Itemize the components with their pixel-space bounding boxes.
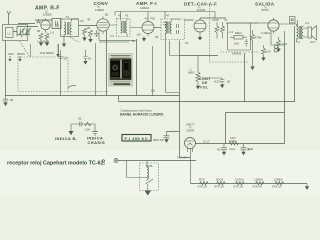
legend capacitor — [80, 122, 82, 127]
AC plug — [114, 159, 118, 163]
capacitor C9 in box — [59, 50, 63, 96]
svg-text:INDICA B-: INDICA B- — [55, 136, 78, 141]
electrolytic dots — [274, 45, 278, 49]
svg-text:F-I 455 KC.: F-I 455 KC. — [125, 136, 150, 141]
main B- bus — [6, 95, 180, 97]
svg-text:DANIEL HORACIO LUCERO: DANIEL HORACIO LUCERO — [120, 112, 164, 116]
svg-text:10K: 10K — [85, 128, 90, 132]
svg-text:1.0 600Ω: 1.0 600Ω — [37, 39, 50, 43]
capacitor C11 — [220, 78, 224, 85]
wire det top right — [185, 18, 227, 20]
tube V3 AMP F-I — [142, 22, 154, 34]
gang link dashed — [20, 41, 30, 56]
svg-text:470K: 470K — [255, 36, 262, 40]
svg-text:05: 05 — [78, 117, 82, 121]
pilot arrows — [57, 44, 59, 54]
wire conv bottom — [99, 31, 136, 42]
photo caption dark — [114, 83, 131, 85]
ground arrow coil — [62, 44, 66, 48]
svg-text:1.0: 1.0 — [50, 31, 55, 35]
heater resistor 2 — [217, 182, 226, 185]
resistor R4 — [45, 33, 49, 39]
svg-text:02: 02 — [185, 41, 189, 45]
svg-text:T1: T1 — [66, 15, 70, 19]
svg-text:6TA 2A: 6TA 2A — [198, 185, 208, 189]
wire conv plate to T2 — [109, 19, 127, 26]
coil primary — [64, 22, 66, 35]
T3 primary — [165, 22, 167, 34]
resistor R6 diode load — [215, 22, 219, 39]
heater resistor 1 — [200, 182, 209, 185]
svg-text:47: 47 — [145, 17, 149, 21]
svg-text:1000: 1000 — [229, 139, 236, 143]
svg-text:6TA 2A: 6TA 2A — [253, 185, 263, 189]
T2 secondary — [126, 21, 127, 33]
svg-text:3.2: 3.2 — [305, 21, 310, 25]
ground B- arrow under R3 — [40, 40, 42, 43]
heater resistor 5 — [275, 182, 284, 185]
RF coil T1 box — [61, 19, 79, 37]
capacitor C3 — [56, 21, 58, 26]
svg-text:D: D — [102, 159, 105, 164]
svg-text:80MA: 80MA — [17, 52, 25, 56]
resistor R1 grid — [37, 20, 41, 23]
bottom wire avc — [228, 49, 251, 51]
wire T3 bottom down — [166, 34, 180, 93]
svg-text:.05: .05 — [9, 98, 14, 102]
svg-text:2.2: 2.2 — [110, 34, 115, 38]
capacitor C10 — [84, 50, 88, 61]
coil in box — [147, 167, 149, 179]
photo center light strip — [120, 60, 122, 79]
T2 primary — [121, 21, 123, 33]
wire T3 out — [172, 19, 180, 21]
svg-text:47: 47 — [166, 14, 170, 18]
coil core — [67, 22, 68, 35]
T3 core — [168, 22, 169, 34]
wire V3 plate right — [154, 27, 161, 29]
svg-text:12BA6: 12BA6 — [140, 6, 149, 10]
svg-text:6TA 2A: 6TA 2A — [215, 185, 225, 189]
osc coil dashed box — [140, 163, 159, 191]
FI 455 box — [122, 135, 151, 142]
resistor R9 — [251, 30, 255, 67]
photo dark interior — [110, 58, 132, 80]
svg-text:SEÑAL: SEÑAL — [232, 51, 242, 56]
chain ground — [306, 184, 308, 187]
svg-text:40Ω 80MA.: 40Ω 80MA. — [40, 51, 55, 55]
ground arrow bottom — [145, 191, 152, 196]
volume control feed — [180, 55, 219, 57]
svg-text:40Ω: 40Ω — [8, 52, 14, 56]
svg-text:CONV: CONV — [94, 1, 109, 6]
svg-text:50C5: 50C5 — [216, 178, 224, 182]
tube V1 AMP R-F — [41, 20, 51, 30]
dial cord curve — [68, 85, 76, 88]
resistor R10 cathode — [262, 45, 266, 58]
svg-text:6TA 2A: 6TA 2A — [272, 185, 282, 189]
capacitor C8 — [245, 39, 249, 47]
vertical line x95 — [95, 43, 97, 96]
photo dial blob — [122, 60, 131, 78]
antenna loop box inner L1 — [6, 28, 14, 38]
AVC network top wire — [226, 22, 258, 24]
svg-text:MEG: MEG — [235, 31, 243, 35]
svg-text:.02: .02 — [131, 39, 136, 43]
wire plate to transformer — [279, 24, 300, 42]
dashed senal line — [220, 51, 258, 53]
wire down left — [5, 41, 7, 97]
heater resistor 4 — [256, 182, 265, 185]
rect pins — [188, 148, 193, 184]
secondary bus — [119, 53, 295, 102]
B+ plate line — [115, 12, 215, 20]
svg-text:1 MEG: 1 MEG — [261, 31, 271, 35]
photo inset frame — [109, 54, 133, 87]
svg-text:L1: L1 — [8, 32, 12, 36]
vertical avc right — [250, 23, 252, 50]
svg-text:HCD: HCD — [214, 80, 221, 84]
capacitor C12 tone — [290, 17, 296, 24]
heater chain wire — [191, 183, 308, 185]
resistor R7 — [221, 22, 225, 39]
T3 trimmer caps — [177, 24, 179, 34]
wire det return — [152, 46, 154, 96]
dashed extension to photo — [68, 91, 108, 93]
antenna mast — [7, 11, 11, 24]
wire plate top — [18, 20, 52, 24]
svg-text:receptor reloj Capehart modelo: receptor reloj Capehart modelo TC-62. — [7, 160, 106, 166]
T3 secondary — [170, 22, 172, 34]
gang diagonal 2 — [70, 37, 79, 42]
svg-text:MEG: MEG — [188, 71, 196, 75]
IF transformer T3 dashed box — [161, 19, 185, 40]
svg-text:.05: .05 — [36, 29, 41, 33]
svg-text:20: 20 — [64, 57, 68, 61]
svg-text:ALT.: ALT. — [310, 40, 316, 44]
svg-text:21B: 21B — [248, 147, 253, 151]
filter resistor R12 — [229, 142, 239, 145]
svg-text:12BE6: 12BE6 — [43, 13, 52, 17]
T2 core — [123, 21, 124, 33]
svg-text:DET.-CAV-A-F: DET.-CAV-A-F — [184, 2, 217, 7]
clock dashed box — [18, 57, 68, 92]
resistor R3 cathode — [39, 33, 43, 39]
svg-text:.05: .05 — [86, 26, 91, 30]
rectif cap — [164, 132, 170, 140]
filter cap B — [241, 144, 247, 152]
svg-text:05: 05 — [155, 35, 159, 39]
svg-text:DE: DE — [202, 81, 208, 85]
svg-text:RECTIF: RECTIF — [153, 138, 164, 142]
node wire — [58, 44, 60, 57]
wires into photo — [107, 31, 137, 96]
B+ vertical right — [294, 26, 296, 102]
tube V2 CONV — [97, 19, 109, 31]
svg-text:150: 150 — [266, 50, 271, 54]
wire rectif to tube — [167, 132, 191, 158]
antenna loop box outer — [3, 25, 28, 41]
capacitor C6 — [163, 23, 167, 28]
wire antenna to grid — [13, 27, 38, 37]
svg-text:40: 40 — [87, 18, 91, 22]
svg-text:12AV6: 12AV6 — [235, 178, 244, 182]
svg-text:20: 20 — [88, 57, 92, 61]
svg-text:47: 47 — [224, 18, 228, 22]
svg-text:CHASIS: CHASIS — [88, 140, 106, 145]
ground arrow under V3 — [143, 36, 145, 38]
speaker — [303, 28, 308, 37]
potentiometer vol — [196, 72, 200, 86]
chassis symbol — [92, 132, 98, 136]
svg-text:21A: 21A — [230, 147, 235, 151]
resistor box R2 — [52, 19, 61, 29]
bus capacitor left — [3, 96, 8, 103]
svg-text:6TA-24: 6TA-24 — [177, 156, 187, 160]
wire sec to conv — [72, 19, 97, 26]
legend resistor — [85, 122, 92, 126]
svg-text:6TA 2A: 6TA 2A — [234, 185, 244, 189]
capacitor C2 — [25, 28, 31, 35]
filter cap A — [221, 144, 227, 152]
tube V5 SALIDA — [268, 20, 279, 31]
svg-text:.02: .02 — [226, 80, 231, 84]
svg-text:10K: 10K — [234, 42, 239, 46]
output transformer T5 — [297, 26, 299, 39]
svg-text:12BE6: 12BE6 — [95, 8, 104, 12]
photo clock blob — [111, 61, 120, 77]
svg-text:50: 50 — [217, 148, 221, 152]
capacitor C5 — [95, 30, 99, 37]
dashed separator det — [210, 6, 248, 63]
svg-text:705: 705 — [150, 17, 155, 21]
photo top caption lines — [111, 55, 131, 56]
B- arrow symbol — [69, 131, 74, 135]
pilot arrows2 — [9, 56, 11, 59]
photo base — [110, 80, 132, 86]
grid parts salida — [258, 22, 268, 24]
AC line wire — [118, 160, 196, 162]
ground arrow R5 — [90, 37, 92, 40]
svg-text:C-17: C-17 — [203, 140, 210, 144]
rect output wire — [196, 143, 285, 145]
svg-text:.05: .05 — [80, 19, 85, 23]
switch branch — [127, 161, 148, 178]
resistor R11 to ground right — [277, 37, 281, 49]
vertical avc left — [227, 23, 229, 50]
node wire to RF tube — [30, 44, 32, 57]
ground arrow under R4 — [46, 40, 48, 43]
resistor box R8 — [234, 36, 243, 40]
svg-text:42: 42 — [125, 14, 129, 18]
heater resistor 3 — [236, 182, 245, 185]
svg-text:.05: .05 — [104, 13, 109, 17]
wire coil down — [63, 35, 65, 44]
wire T2 to V3 — [127, 28, 142, 37]
conv grid parts — [83, 28, 87, 34]
ground arrow R10 — [261, 58, 265, 62]
tube V6 RECT — [185, 138, 196, 149]
svg-text:41: 41 — [118, 14, 122, 18]
feedback wires — [271, 31, 285, 45]
svg-text:470K: 470K — [212, 18, 219, 22]
ground arrow under V4 — [199, 35, 201, 37]
capacitor C1 trimmer — [19, 28, 25, 38]
svg-text:50C5: 50C5 — [262, 8, 270, 12]
screen feed vertical — [284, 45, 286, 113]
indica legend wire — [71, 124, 95, 132]
wiper — [202, 77, 222, 79]
svg-text:1M: 1M — [137, 33, 142, 37]
IF transformer T2 dashed box — [117, 19, 131, 37]
svg-text:12BE6: 12BE6 — [274, 178, 283, 182]
capacitor C4 on wire — [56, 24, 58, 28]
svg-text:35W4: 35W4 — [187, 129, 195, 133]
tube V4 DET — [194, 20, 206, 32]
switch — [146, 179, 154, 191]
coil secondary — [70, 22, 72, 35]
svg-text:15K: 15K — [282, 42, 287, 46]
svg-text:2.2: 2.2 — [229, 30, 234, 34]
svg-text:12BA6: 12BA6 — [254, 178, 263, 182]
svg-text:VOL: VOL — [200, 86, 209, 90]
bus drop to rectifier — [179, 41, 181, 158]
power rect routing box — [226, 113, 285, 144]
svg-text:R30: R30 — [199, 178, 205, 182]
resistor R5 — [89, 30, 93, 36]
